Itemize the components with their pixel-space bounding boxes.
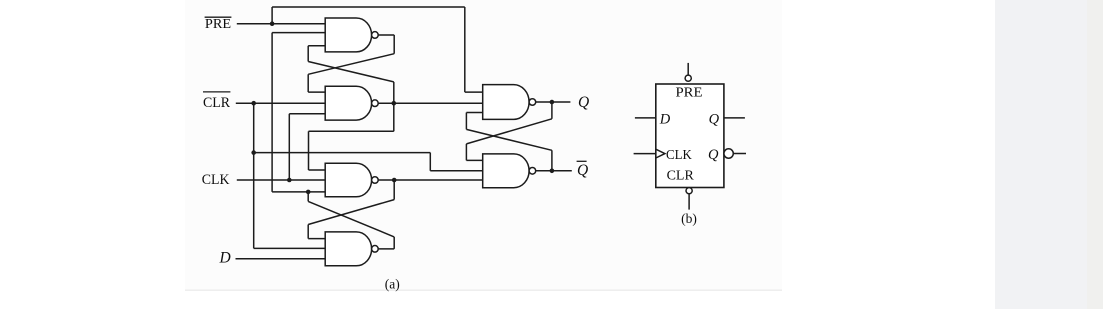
svg-text:PRE: PRE <box>205 16 231 31</box>
svg-text:(b): (b) <box>681 211 697 226</box>
svg-text:(a): (a) <box>385 277 400 292</box>
svg-text:PRE: PRE <box>676 85 703 100</box>
svg-text:CLK: CLK <box>202 172 230 188</box>
svg-text:Q: Q <box>578 94 589 111</box>
svg-text:CLR: CLR <box>667 167 694 182</box>
svg-text:Q: Q <box>577 162 588 179</box>
svg-text:CLK: CLK <box>666 147 692 162</box>
svg-text:D: D <box>219 250 231 267</box>
svg-text:CLR: CLR <box>203 95 231 111</box>
svg-text:Q: Q <box>708 147 719 163</box>
svg-text:D: D <box>659 111 671 127</box>
svg-text:Q: Q <box>709 111 720 127</box>
